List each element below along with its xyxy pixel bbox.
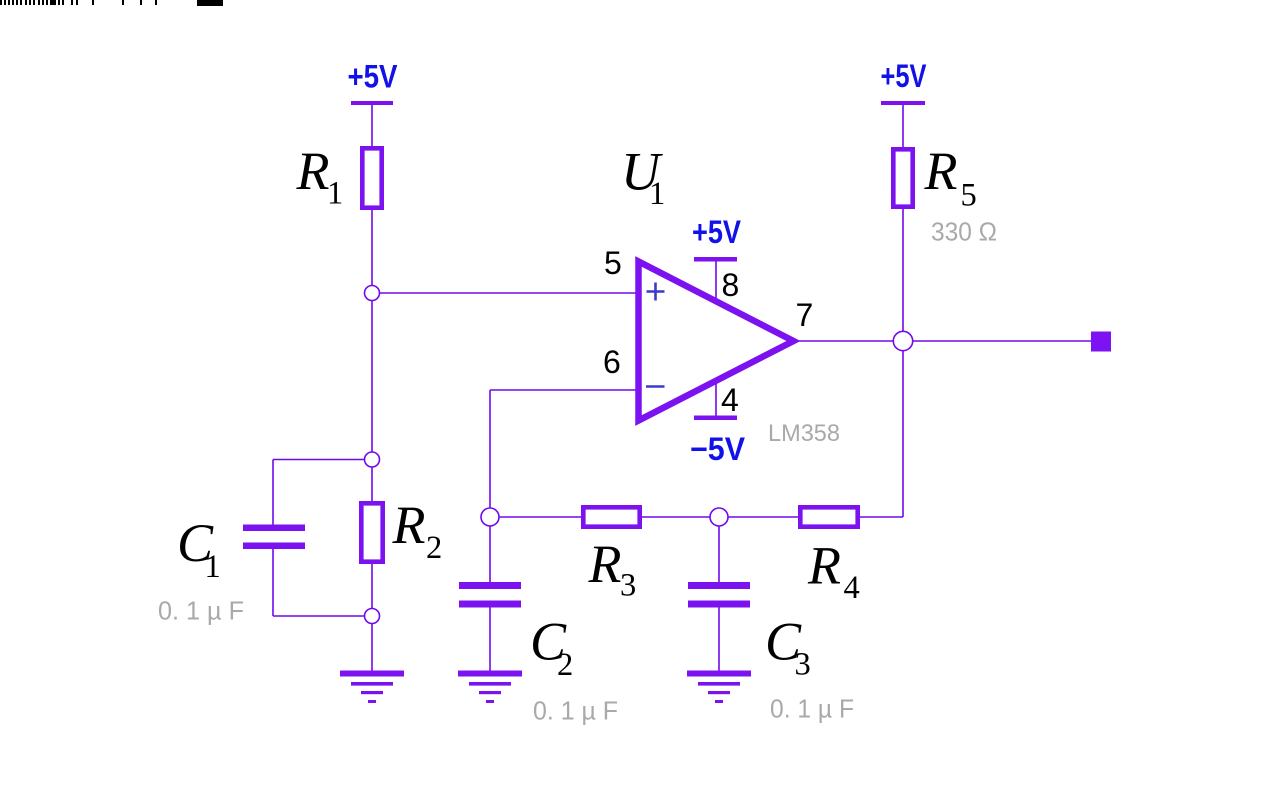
svg-text:R: R xyxy=(807,536,841,596)
svg-text:8: 8 xyxy=(722,267,740,303)
svg-text:5: 5 xyxy=(604,245,622,281)
svg-text:5: 5 xyxy=(961,178,977,214)
svg-text:+5V: +5V xyxy=(692,214,742,250)
svg-text:0. 1 µ F: 0. 1 µ F xyxy=(533,696,618,726)
svg-text:2: 2 xyxy=(426,530,442,566)
svg-text:R: R xyxy=(588,534,622,594)
svg-text:3: 3 xyxy=(795,647,811,683)
svg-text:1: 1 xyxy=(205,549,221,585)
svg-text:+5V: +5V xyxy=(348,59,399,95)
svg-text:0. 1 µ F: 0. 1 µ F xyxy=(770,694,854,724)
svg-text:1: 1 xyxy=(649,176,665,212)
svg-text:2: 2 xyxy=(557,647,573,683)
svg-text:R: R xyxy=(392,495,426,555)
svg-text:LM358: LM358 xyxy=(768,420,840,447)
svg-text:7: 7 xyxy=(796,297,814,333)
svg-text:1: 1 xyxy=(327,176,343,212)
svg-text:−5V: −5V xyxy=(690,431,746,467)
svg-text:R: R xyxy=(296,141,330,201)
svg-text:R: R xyxy=(924,141,958,201)
svg-text:3: 3 xyxy=(620,568,636,604)
svg-text:330 Ω: 330 Ω xyxy=(931,217,997,247)
svg-text:+5V: +5V xyxy=(881,58,928,94)
svg-text:4: 4 xyxy=(721,382,739,418)
svg-text:4: 4 xyxy=(844,570,860,606)
svg-text:6: 6 xyxy=(603,344,621,380)
svg-text:0. 1 µ F: 0. 1 µ F xyxy=(158,596,244,626)
